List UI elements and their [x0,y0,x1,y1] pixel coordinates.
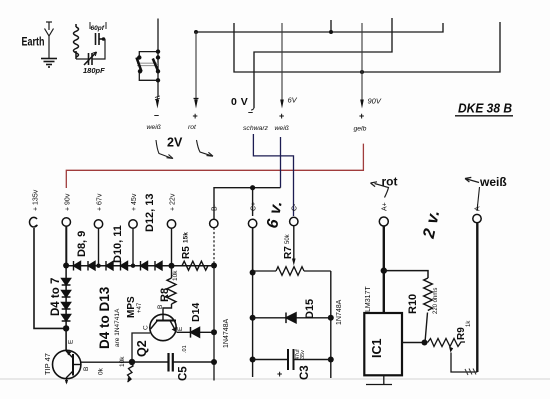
red wire gelb to +90v [66,144,363,188]
svg-text:0 V: 0 V [231,96,248,108]
svg-text:10k: 10k [172,270,179,281]
svg-text:weiß: weiß [147,124,161,131]
A+ rail node [381,267,387,273]
svg-text:+: + [193,111,198,121]
resistor R8 [171,266,173,278]
svg-text:TIP 47: TIP 47 [43,353,52,375]
bus B1 [196,20,443,32]
rail C+ down [252,228,254,377]
svg-text:–: – [248,107,253,117]
navy wire weiss to node [280,137,282,188]
svg-text:+ 135v: + 135v [33,189,40,211]
svg-text:+ 90v: + 90v [65,193,72,211]
tank bottom wire [76,39,105,59]
svg-text:+47: +47 [137,302,143,313]
svg-text:180pF: 180pF [83,66,105,75]
bus B2 [254,18,392,108]
svg-text:+: + [277,369,282,379]
rail right down [330,271,332,378]
svg-text:B-: B- [212,203,219,211]
svg-text:1k: 1k [466,320,472,327]
terminal +22v [167,193,176,265]
svg-text:C: C [143,325,150,330]
svg-text:.01: .01 [182,345,188,353]
svg-text:R8: R8 [159,288,171,302]
capacitor 60pF [96,33,106,45]
svg-text:+: + [279,111,284,121]
coil L1 [74,24,79,59]
svg-text:R7: R7 [283,246,294,259]
svg-text:15k: 15k [183,232,190,243]
capacitor C3 [253,359,287,361]
svg-text:MPS: MPS [126,296,137,318]
switch S1 [139,19,158,98]
svg-text:weiß: weiß [479,175,507,189]
diode D15 [253,317,331,319]
transistor TIP47 [43,328,90,384]
svg-text:D4 to 7: D4 to 7 [50,278,62,316]
svg-text:10k: 10k [119,356,126,367]
base wire TIP47 to node [81,361,132,363]
svg-text:E: E [68,339,75,344]
terminal A- [473,203,482,372]
svg-text:D8, 9: D8, 9 [76,231,88,257]
svg-text:6V: 6V [288,96,298,105]
black link wire B- C+ node [214,188,281,219]
svg-text:are 1N4741A: are 1N4741A [114,308,121,347]
svg-text:Earth: Earth [22,37,45,49]
IC1 bottom stub [366,375,392,384]
svg-text:220 ohms: 220 ohms [433,288,439,314]
svg-text:LM317T: LM317T [365,286,372,312]
capacitor C5 [132,361,168,363]
svg-text:+: + [359,111,364,121]
svg-text:D10, 11: D10, 11 [112,225,124,263]
diode chain D4 to 7 [62,266,71,329]
svg-text:R5: R5 [181,246,192,259]
rail B- down [213,266,215,381]
pot R9 [428,339,466,347]
transistor Q2 MPS [150,305,184,341]
svg-text:35v: 35v [300,350,306,359]
terminal C- [290,203,299,266]
svg-text:60pf: 60pf [91,25,105,32]
terminal arrow 6V weiss [275,96,298,133]
IC1 LM317T [364,313,402,375]
svg-text:+ 45v: + 45v [131,193,138,211]
svg-text:C5: C5 [178,366,190,381]
svg-text:1N748A: 1N748A [336,299,343,325]
wire node to Q2 collector [132,333,150,362]
svg-text:C-: C- [292,203,299,211]
wire rot terminal [195,32,197,100]
terminal +45v [129,193,138,265]
svg-text:1N4748A: 1N4748A [223,318,230,348]
svg-text:–: – [154,110,159,120]
svg-text:+ 22v: + 22v [170,193,177,211]
svg-text:A+: A+ [382,202,389,211]
terminal arrow rot [188,99,199,132]
navy wire schwarz to C- [253,134,293,216]
svg-text:DKE 38 B: DKE 38 B [458,101,512,116]
svg-text:E: E [177,326,184,331]
svg-text:D15: D15 [304,299,316,319]
main diode bus wire [66,265,214,267]
variable capacitor 180pF [84,52,97,65]
arrow from rot [197,140,212,156]
ground [41,59,57,68]
diodes D12,13 [141,261,163,271]
svg-text:gelb: gelb [354,126,367,133]
svg-text:A-: A- [475,203,482,211]
terminal B- [210,203,219,265]
svg-text:90V: 90V [368,97,382,106]
svg-text:+ 67v: + 67v [97,193,104,211]
terminal A+ [379,202,388,313]
terminal +135v [30,189,67,328]
svg-text:B: B [83,367,90,371]
antenna [45,22,54,58]
resistor R5 [182,261,208,270]
diodes D10,11 [106,261,128,271]
wire 90V terminal [361,23,363,100]
terminal C+ [248,202,257,273]
IC1 out pin to R10 bottom [402,342,424,344]
svg-text:Q2: Q2 [135,340,149,357]
svg-text:rot: rot [188,124,197,131]
terminal arrow weiss [147,96,161,131]
diode D14 [177,331,214,333]
bus B3 [234,22,500,72]
terminal +90v [62,193,71,265]
node dots bus [194,30,198,34]
svg-text:2V: 2V [167,136,183,150]
svg-text:0k: 0k [98,367,105,375]
terminal arrow 90V gelb [354,97,382,133]
terminal +67v [94,193,103,265]
pot R7 [253,270,276,272]
svg-text:schwarz: schwarz [243,125,269,132]
resistor R10 [424,278,433,311]
svg-text:C+: C+ [251,202,258,211]
wire 6V terminal [281,23,283,100]
svg-text:R9: R9 [456,327,467,340]
svg-text:IC1: IC1 [370,339,384,359]
diodes D8,9 [74,261,96,271]
svg-text:R10: R10 [407,294,419,314]
svg-text:D4 to D13: D4 to D13 [97,286,112,349]
arrow from weiss [156,140,171,158]
svg-text:D14: D14 [190,303,202,322]
svg-text:50k: 50k [285,233,291,244]
svg-text:weiß: weiß [275,125,289,132]
scan edge artifact line [0,378,550,380]
svg-text:D12, 13: D12, 13 [144,193,156,232]
svg-text:C3: C3 [299,365,311,380]
